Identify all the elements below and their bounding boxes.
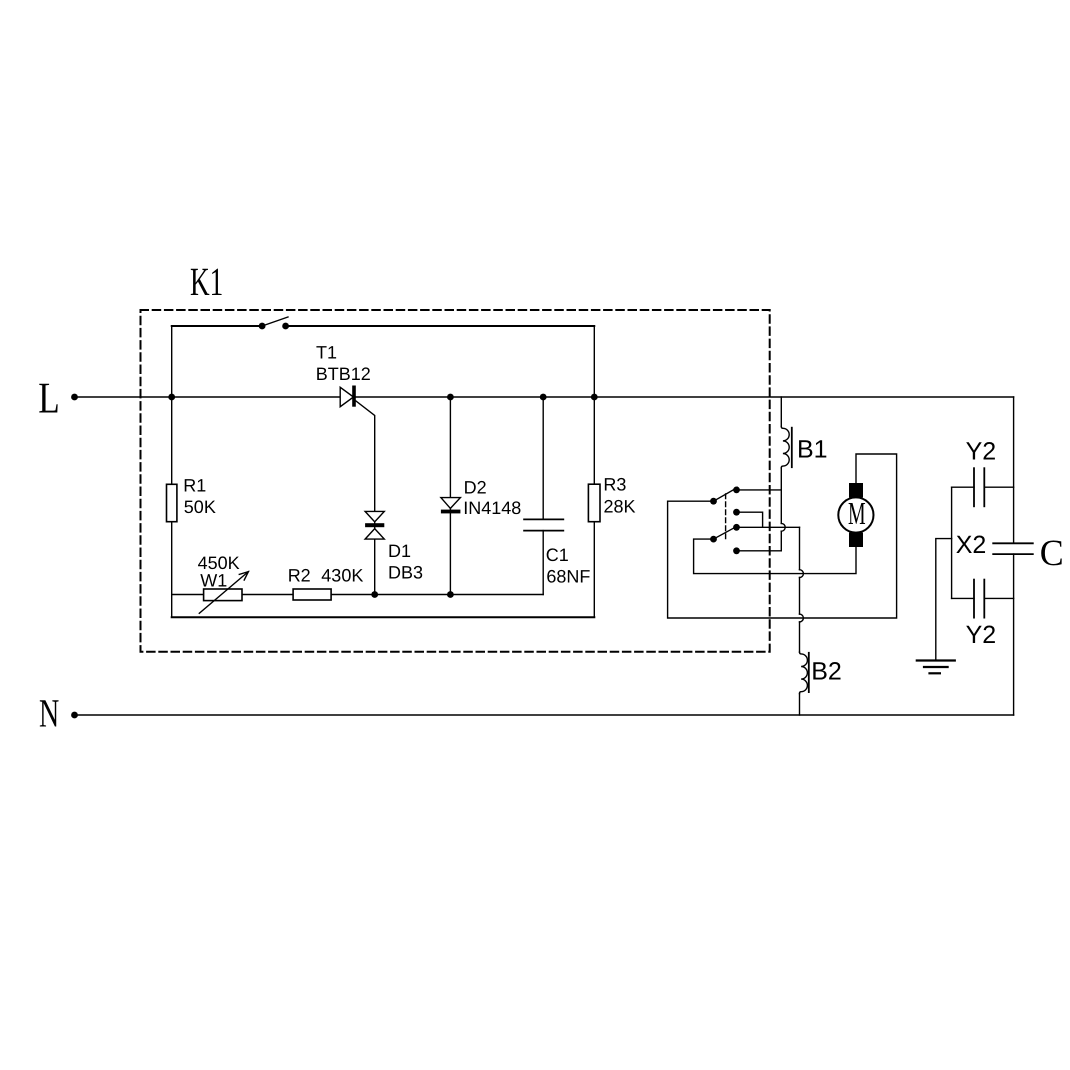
node N label [39,691,59,736]
triac T1 [340,386,375,595]
node N terminal dot [71,712,78,719]
wire hop B1 over gate-select line [781,523,785,531]
wire upper pivot loop [668,454,897,618]
potentiometer W1 [199,572,248,614]
ground [917,661,955,674]
svg-text:D2: D2 [464,478,487,498]
svg-text:L: L [38,373,60,422]
svg-text:C1: C1 [546,545,569,565]
capacitor Y2 bottom label [966,621,997,649]
svg-text:430K: 430K [321,566,363,586]
triac T1 label [316,343,337,363]
svg-text:28K: 28K [604,496,636,516]
capacitor C1 value label [546,566,590,586]
wire contact D line to speed bus [737,526,800,528]
capacitor Y2 top [952,468,1014,506]
svg-text:D1: D1 [388,541,411,561]
resistor R3 value label [604,496,636,516]
diac D1 label [388,541,411,561]
node L label [38,373,60,422]
relay K1 dashed enclosure [141,310,770,652]
svg-text:R2: R2 [288,566,311,586]
svg-text:Y2: Y2 [966,438,997,466]
svg-text:Y2: Y2 [966,621,997,649]
wire speed bus vertical [800,527,804,652]
switch SW contact F dot [733,547,740,554]
wire inner box left edge [171,326,173,617]
wire inner box bottom edge [172,616,595,618]
svg-text:IN4148: IN4148 [463,498,521,518]
wire N line [75,714,1014,716]
switch SW lower lever [714,526,738,539]
capacitor bank C label [1040,533,1064,574]
resistor R1 value label [184,497,216,517]
svg-text:X2: X2 [956,531,987,559]
capacitor Y2 top label [966,438,997,466]
motor M letter [848,495,866,531]
switch SW upper contact A dot [733,487,740,494]
inductor B1 label [797,436,828,464]
resistor R1 label [183,475,206,495]
node L terminal dot [71,394,78,401]
wire L line [75,396,1014,398]
node junction dot gate/D2 [447,591,454,598]
svg-text:N: N [39,691,59,736]
svg-text:W1: W1 [200,571,227,591]
wire lower pivot loop [694,539,856,574]
node junction dot L/D2 [447,394,454,401]
node junction dot L/left-edge [168,394,175,401]
switch SW upper pivot B dot [710,498,717,505]
svg-text:DB3: DB3 [388,563,423,583]
diode D2 label [464,478,487,498]
relay K1 label [190,259,223,304]
svg-text:K1: K1 [190,259,223,304]
wire inner box top edge left segment [172,325,262,327]
node junction dot L/C1 [540,394,547,401]
svg-text:BTB12: BTB12 [316,364,371,384]
switch SW gang linkage dashed [725,494,727,539]
capacitor C1 label [546,545,569,565]
wire D2 branch [449,397,451,595]
svg-text:R1: R1 [183,475,206,495]
resistor R2 value label [321,566,363,586]
wire Y2 left link [951,487,953,598]
switch S1 on top edge [259,317,289,329]
inductor B1 [781,397,789,523]
wire right bus upper [1013,397,1015,543]
wire gate line [172,594,544,596]
svg-text:B1: B1 [797,436,828,464]
wire B1 to contact F [737,531,782,551]
wire ground branch [936,539,952,661]
inductor B2 core bar [808,653,810,692]
motor M [838,483,873,547]
triac T1 value label [316,364,371,384]
diac D1 [365,511,384,539]
svg-text:M: M [848,495,866,531]
diode D2 [441,498,461,514]
capacitor C1 [524,397,563,595]
resistor R3 label [603,474,626,494]
switch SW contact D dot [733,524,740,531]
inductor B2 label [811,658,842,686]
inductor B2 [800,652,808,715]
potentiometer W1 label [200,571,227,591]
potentiometer W1 value label [198,553,240,573]
wire inner box top edge right segment [286,325,595,327]
svg-text:B2: B2 [811,658,842,686]
resistor R3 [588,484,600,522]
capacitor X2 label [956,531,987,559]
resistor R1 [167,484,177,521]
resistor R2 [293,589,331,600]
wire contact A to B1 [737,489,782,491]
capacitor Y2 bottom [952,580,1014,618]
inductor B1 core bar [791,428,793,468]
node junction dot gate/D1 [371,591,378,598]
node junction dot L/R3 [591,394,598,401]
wire right bus lower [1013,554,1015,715]
capacitor X2 [993,543,1033,554]
switch SW contact C dot [733,509,740,516]
switch SW lower pivot E dot [710,536,717,543]
switch SW upper lever [714,488,738,502]
svg-text:C: C [1040,533,1064,574]
diode D2 value label [463,498,521,518]
wire inner box right edge (R3 branch) [593,326,595,617]
svg-text:R3: R3 [603,474,626,494]
svg-text:68NF: 68NF [546,566,590,586]
diac D1 value label [388,563,423,583]
resistor R2 label [288,566,311,586]
wire contact C branch [737,512,763,527]
svg-text:50K: 50K [184,497,216,517]
svg-text:T1: T1 [316,343,337,363]
